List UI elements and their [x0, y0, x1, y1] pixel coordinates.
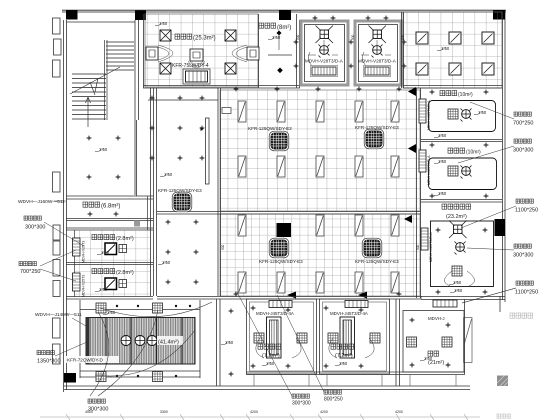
svg-text:KFR-75LW/DY-4: KFR-75LW/DY-4 [172, 63, 209, 69]
elevation lobby [95, 147, 108, 152]
column top 4 [493, 10, 505, 20]
AC unit B [364, 66, 391, 77]
label 700*250 left [19, 250, 76, 281]
svg-text:MDVH-V25T3/D-A: MDVH-V25T3/D-A [429, 232, 433, 262]
svg-text:(7.2m²): (7.2m²) [335, 353, 353, 359]
column top 1 [66, 10, 78, 20]
meeting room 1 table [429, 101, 496, 132]
office2 top AC [345, 301, 368, 308]
leader B [361, 40, 391, 68]
xbox f [105, 243, 117, 255]
stair steps right flight [72, 40, 134, 120]
svg-text:MDVH-V25T3/D-A: MDVH-V25T3/D-A [427, 155, 431, 185]
corner waffles [96, 303, 106, 313]
wall bottom double [64, 386, 470, 390]
column right mid black [495, 219, 506, 236]
wall AC f [73, 238, 81, 256]
corridor marks [229, 309, 234, 314]
room label 监控室(25.3m2) [175, 34, 216, 42]
label 1350*300 left [37, 342, 87, 365]
hall grid lower [220, 214, 420, 296]
VIP symbols [449, 221, 467, 239]
AC wall unit room1 [419, 99, 426, 123]
offices bottom corridor wall [246, 299, 465, 375]
room B walls [355, 21, 401, 85]
AC unit A [311, 66, 338, 77]
svg-text:500: 500 [221, 244, 225, 250]
top wall [62, 10, 506, 12]
leader curves [90, 302, 212, 396]
column bottom left [64, 373, 76, 383]
xbox m [105, 278, 117, 290]
striped block [86, 318, 195, 365]
svg-text:(10m²): (10m²) [466, 150, 481, 156]
office1 leaders [256, 338, 301, 358]
label 1100*250 r4 [462, 281, 538, 303]
svg-text:MDVH-V25T3: MDVH-V25T3 [82, 241, 86, 263]
office3 [403, 300, 464, 372]
svg-text:300*300: 300*300 [513, 148, 534, 154]
cassette A [316, 26, 334, 44]
wall left vertical double [64, 20, 67, 392]
grid [403, 12, 502, 88]
dimension line bottom [40, 414, 480, 420]
office2 indoor unit [340, 317, 355, 358]
plus marks top rooms [313, 16, 318, 21]
xbox diffusers [160, 30, 171, 41]
cassette B [369, 26, 387, 44]
office2 leaders [329, 338, 374, 358]
waffle W6 [362, 238, 382, 258]
label 茶水间(8m2) [259, 23, 291, 31]
wall arrows right [408, 87, 416, 96]
svg-text:MDVH-V28T3/D-A: MDVH-V28T3/D-A [305, 59, 344, 64]
meeting room 2 walls [421, 200, 502, 203]
slash diffusers row4 [238, 272, 246, 293]
svg-text:4200: 4200 [320, 410, 328, 414]
AC wall unit room2 [419, 150, 426, 172]
wall AC m [73, 273, 81, 291]
room label 中心机房 w/ circles [121, 336, 183, 346]
hall wall plus marks [234, 87, 239, 92]
WC label 卫生间(6.8m2) [83, 202, 120, 210]
svg-text:4200: 4200 [250, 410, 258, 414]
svg-text:MDVH-V28T3/D-A: MDVH-V28T3/D-A [358, 59, 397, 64]
meeting room 2 table [429, 158, 497, 190]
office3 crosses [410, 318, 415, 323]
svg-text:KFR-125QW/SDY-E3: KFR-125QW/SDY-E3 [248, 126, 292, 131]
black duct box [277, 223, 292, 237]
svg-text:(21m²): (21m²) [428, 360, 444, 366]
svg-text:1100*250: 1100*250 [515, 208, 538, 214]
slash diffusers row1 [238, 101, 246, 122]
svg-text:3300: 3300 [160, 410, 168, 414]
waffle W1 [269, 131, 289, 151]
wall split unit center [188, 49, 205, 68]
bottom labels 800*250 [277, 295, 343, 403]
office1 indoor unit [267, 317, 282, 358]
office1 top AC [269, 301, 292, 308]
svg-text:300*300: 300*300 [292, 401, 311, 407]
svg-text:(6.8m²): (6.8m²) [101, 204, 120, 210]
fan B [372, 45, 383, 58]
office2 crosses [324, 306, 329, 311]
office2 room label [331, 344, 354, 359]
wall right vertical [500, 10, 505, 312]
svg-text:(23.2m²): (23.2m²) [446, 214, 467, 220]
locker walls [66, 230, 153, 299]
svg-text:1350*300: 1350*300 [37, 359, 61, 365]
room grid [145, 14, 258, 87]
svg-text:KFR-125QW/SDY-E3: KFR-125QW/SDY-E3 [355, 259, 399, 264]
office3 room label 办公室 [428, 351, 444, 366]
slash diffusers row2 [238, 156, 246, 177]
office1 waffles [254, 333, 264, 343]
tea room marks [277, 31, 282, 36]
diag boxes [416, 32, 428, 44]
symbols room2 [448, 166, 458, 176]
svg-text:300*300: 300*300 [25, 225, 46, 231]
stair box walls [66, 20, 154, 296]
office2 [320, 299, 390, 374]
column top 3 [279, 10, 291, 20]
office2 waffles [328, 333, 338, 343]
room outer [80, 300, 200, 378]
dots [116, 305, 191, 377]
meeting room 1 walls [421, 140, 502, 142]
svg-text:KFR-72QW/DY-D: KFR-72QW/DY-D [67, 358, 104, 363]
meeting room 1 label 洽谈区(10m2) [440, 91, 473, 99]
office3 waffles [407, 337, 417, 347]
svg-text:1100*250: 1100*250 [515, 290, 538, 296]
svg-text:(8m²): (8m²) [277, 25, 291, 31]
svg-text:700*250: 700*250 [513, 121, 534, 127]
hall grid upper [220, 90, 420, 211]
lobby crosses [87, 136, 92, 141]
slash diffusers row3 [238, 215, 246, 236]
office1 [247, 299, 317, 374]
arrows office wall [287, 292, 296, 299]
stair arrow diagonal [70, 67, 120, 95]
svg-text:(2.8m²): (2.8m²) [116, 236, 134, 242]
room label 女更衣室(2.8m2) [92, 235, 134, 243]
waffle W3 left zone [172, 192, 192, 212]
meeting room 2 label [448, 148, 481, 156]
tall shaft right [464, 318, 473, 363]
grey hatch square [497, 376, 508, 387]
floor AC unit center [183, 69, 210, 84]
elevation marks hall [160, 172, 173, 177]
block dividers [106, 318, 182, 365]
bottom labels 300*300 [237, 292, 311, 407]
left zone crosses [150, 96, 155, 101]
svg-text:(2.8m²): (2.8m²) [116, 270, 134, 276]
door mark [134, 221, 140, 227]
svg-text:MDVH-J45T3/D-4A: MDVH-J45T3/D-4A [330, 311, 368, 316]
label KFR machine [66, 356, 119, 363]
waffle W5 [269, 238, 289, 258]
duct bar vertical [206, 118, 210, 184]
leader A [308, 40, 338, 68]
svg-text:300*300: 300*300 [513, 253, 534, 259]
VIP room walls bottom [421, 297, 505, 300]
svg-text:(10m²): (10m²) [458, 92, 473, 98]
svg-text:KFR-125QW/SDY-E3: KFR-125QW/SDY-E3 [158, 188, 202, 193]
elevation [155, 21, 168, 26]
office3 top AC [433, 300, 457, 307]
room wall bottom [143, 14, 300, 88]
left facade windows [53, 18, 62, 364]
svg-text:MDVH-V25T3/D-A: MDVH-V25T3/D-A [427, 100, 431, 130]
corridor walls x153 [66, 88, 157, 296]
office separator wall [396, 296, 421, 386]
AC wall unit VIP [421, 228, 428, 250]
svg-text:WDVH—J140W—511: WDVH—J140W—511 [35, 312, 82, 318]
svg-text:MDVH-J: MDVH-J [428, 316, 445, 321]
fan A [319, 45, 330, 58]
label 300*300 bottom left [88, 399, 109, 413]
VIP label 贵宾接待室 [442, 204, 471, 220]
svg-text:500: 500 [296, 34, 300, 40]
WC walls [66, 196, 153, 230]
label 1100*250 leader to office3 top [462, 288, 516, 303]
wall [402, 12, 503, 88]
label 300*300 r3 [467, 244, 534, 259]
office1 crosses [251, 306, 256, 311]
room label 男更衣室(2.8m2) [92, 269, 134, 277]
office1 room label 副办公室(7.2m2) [258, 344, 281, 359]
svg-text:700*250: 700*250 [20, 269, 41, 275]
office2 walls [320, 299, 390, 374]
svg-text:(25.3m²): (25.3m²) [193, 36, 216, 42]
stair up arrow [86, 97, 91, 127]
label 1100*250 r2 [461, 199, 538, 228]
label 300*300 left [24, 216, 84, 246]
svg-text:WDVH—J160W—511: WDVH—J160W—511 [18, 199, 65, 205]
VIP inner box [431, 221, 494, 287]
locker grid [75, 230, 150, 297]
office3 walls [403, 311, 464, 373]
right room crosses [430, 90, 435, 95]
label WDVH-J140W-511 [35, 312, 86, 326]
svg-text:500: 500 [401, 34, 405, 40]
svg-text:(41.4m²): (41.4m²) [158, 340, 179, 346]
elevation [437, 46, 450, 51]
symbols room1 [448, 109, 458, 119]
room A walls [301, 21, 348, 85]
office1 walls [247, 299, 317, 374]
label WDVH-J160W-511 [18, 199, 66, 205]
svg-text:KFR-125QW/SDY-E3: KFR-125QW/SDY-E3 [259, 259, 303, 264]
label 700*250 [470, 102, 534, 127]
wall split unit left [146, 45, 173, 62]
svg-text:4500: 4500 [85, 410, 93, 414]
wall split unit right [232, 45, 259, 62]
office top wall [157, 297, 421, 387]
svg-text:500: 500 [416, 244, 420, 250]
column top 2 [135, 11, 146, 21]
watermark text faint [510, 313, 533, 318]
svg-text:4200: 4200 [395, 410, 403, 414]
label 300*300 r1 [458, 139, 534, 163]
svg-text:800*250: 800*250 [324, 397, 343, 403]
svg-text:MDVH-V25T3: MDVH-V25T3 [82, 275, 86, 297]
svg-text:500: 500 [351, 34, 355, 40]
hall walls [157, 88, 421, 298]
svg-text:KFR-125QW/SDY-E3: KFR-125QW/SDY-E3 [355, 125, 399, 130]
waffle W2 [364, 129, 384, 149]
